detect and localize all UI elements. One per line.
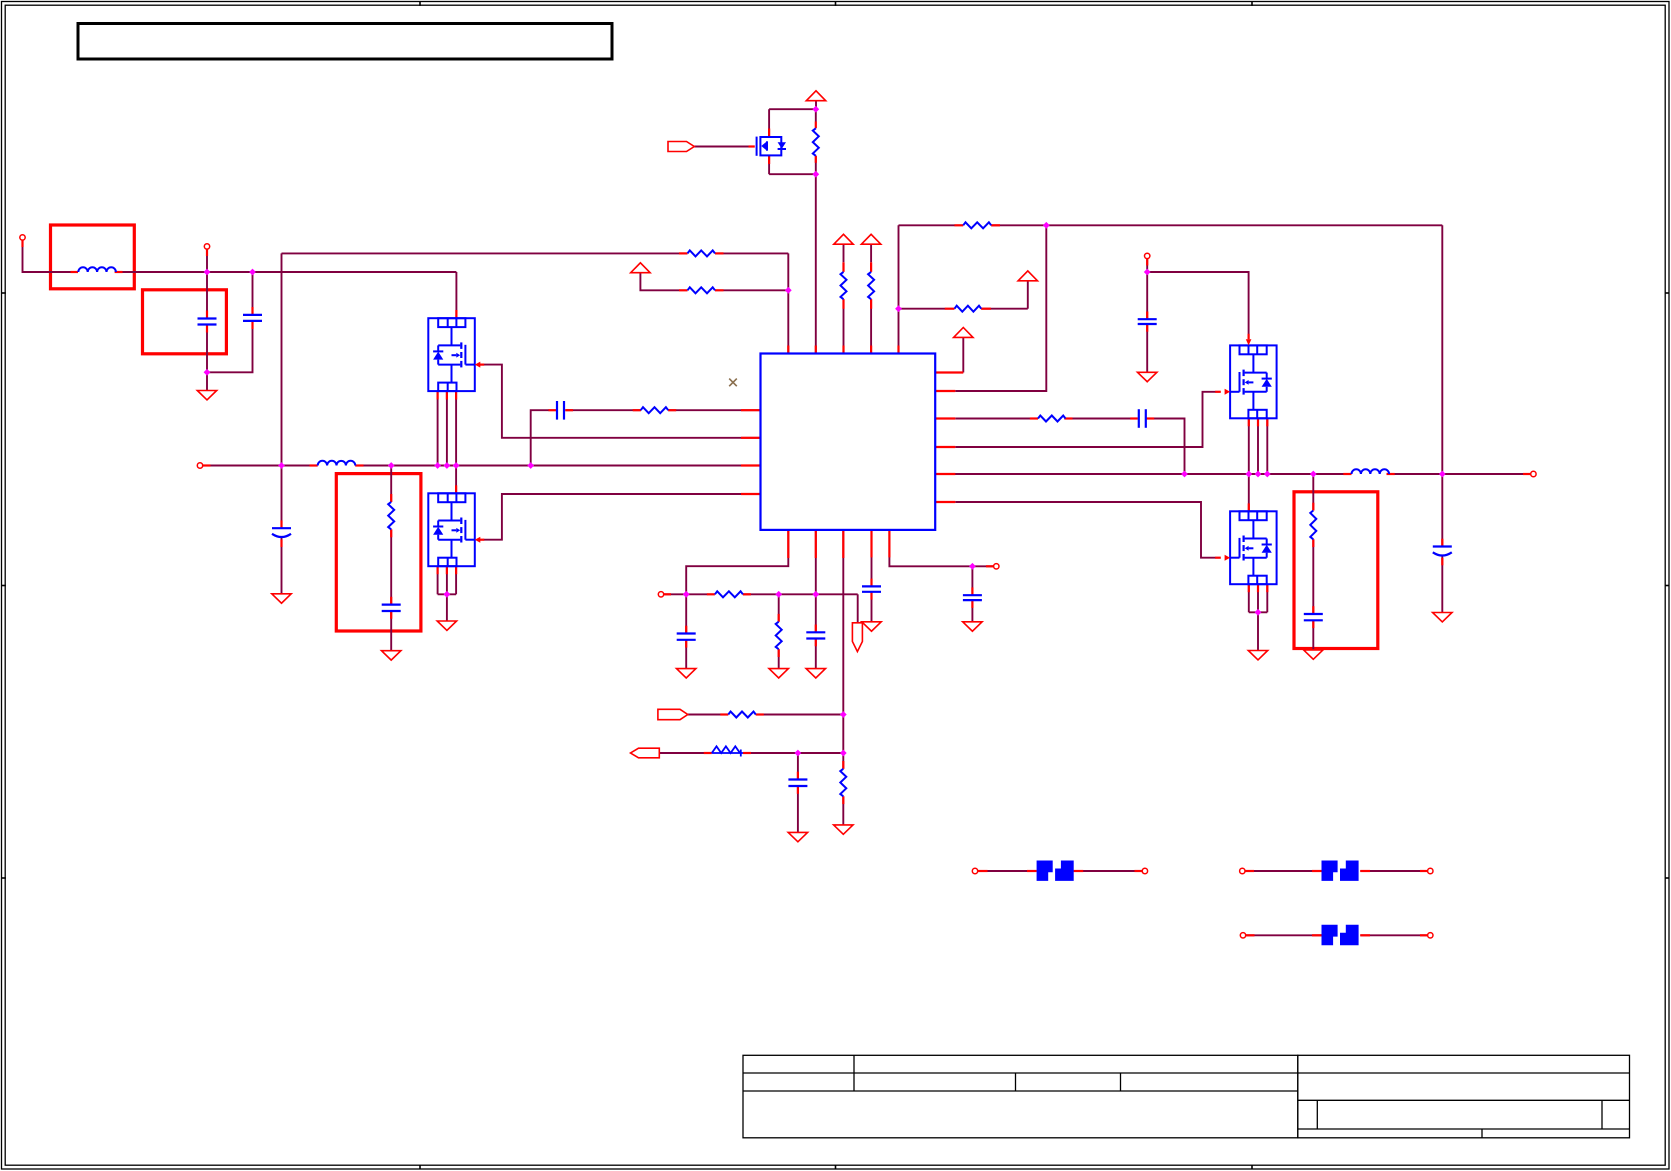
power arrow PW1 [806, 91, 825, 101]
wire M2 source pin a down [437, 566, 439, 594]
power arrow PW5 [1018, 271, 1037, 281]
wire resistor R11 to ground [778, 649, 780, 668]
pin stub C11 right [565, 409, 573, 411]
node junction feedback row b [840, 750, 847, 757]
inductor L2 [1352, 469, 1390, 474]
wire row2 between C11 and R6 [565, 409, 641, 411]
wire M2 source merge [438, 593, 457, 595]
wire port4 to M3 top [1147, 272, 1248, 339]
pin stub M1 gate lead [479, 364, 485, 366]
pin stub IC left row4 [741, 464, 761, 466]
wire row3 C12 to right bus [1147, 419, 1185, 475]
resistor R13 [728, 712, 756, 718]
IC U5 main controller [761, 354, 936, 530]
pin stub L1 right [115, 271, 123, 273]
pin stub bulk cap bottom [280, 540, 282, 548]
wire pull-up resistor R1 top [815, 109, 817, 121]
wire VIN rail to IC pin [787, 253, 789, 353]
wire fb row right of R14 [743, 752, 843, 754]
output port tag A2 [631, 748, 660, 758]
port P3 [197, 463, 202, 468]
resistor R15 in VIN rail [688, 250, 716, 256]
pin stub C2 bottom [251, 321, 253, 329]
pin stub C9 top [390, 597, 392, 605]
capacitor C14 polarized bulk right [1433, 547, 1452, 556]
wire gate port to Q1 gate [694, 146, 748, 148]
resistor R3 [868, 272, 874, 299]
inductor L3 [318, 461, 356, 466]
wire right output bus [935, 473, 1344, 475]
wire left output bus right of L3 [355, 465, 760, 467]
wire M4 source pin c down [1266, 584, 1268, 612]
capacitor C7 [806, 632, 825, 638]
ground symbols [197, 372, 1452, 842]
pin stub R4 left [955, 224, 964, 226]
node junction boot rail [1043, 222, 1050, 229]
pin stub M3 top arrow lead [1247, 334, 1249, 340]
port P7 [658, 592, 663, 597]
pin stub M2 top [455, 485, 457, 493]
pin stub M2 bottom c [455, 566, 457, 574]
resistor R8 [388, 502, 394, 530]
wire node to IC top pin 2 [815, 174, 817, 353]
pin stub R12 top [842, 761, 844, 769]
wire VIN rail down through left bus to bulk cap [281, 253, 283, 528]
pin stub C9 bottom [390, 611, 392, 619]
wire fuse F3 right lead [1360, 934, 1428, 936]
pin stub R9 bottom [1312, 539, 1314, 547]
pin stub C2 top [251, 307, 253, 315]
pin stub R8 top [390, 494, 392, 502]
wire M3 source pin b to bus [1257, 418, 1259, 474]
resistor R16 branch [688, 287, 716, 293]
capacitor C11 series dc-block [557, 401, 564, 420]
node junction sense row b [775, 591, 782, 598]
fuse F1 body [1037, 861, 1074, 881]
resistor R4 [963, 222, 991, 228]
fuse F3 body [1322, 925, 1359, 945]
wire sense node to cap C7 [815, 594, 817, 632]
pin stub L2 left [1343, 473, 1351, 475]
wire sense node to resistor R11 [778, 594, 780, 621]
pin stub R1 top [815, 122, 817, 129]
pin stub M2 gate lead [479, 539, 485, 541]
wire VIN rail right of R15 [715, 252, 788, 254]
pin stub M4 bottom b [1257, 584, 1259, 592]
capacitor C1 [198, 319, 217, 325]
wire rail drop to IC right pin 2 [955, 225, 1046, 391]
wire row3 between R7 and C12 [1066, 418, 1131, 420]
pin stub port2 [206, 249, 208, 256]
port F2 left [1240, 868, 1245, 873]
wire M3 source pin a to bus [1248, 418, 1250, 474]
pin stub M2 bottom a [437, 566, 439, 574]
node junction right bus e [1310, 471, 1317, 478]
wire power to resistor R2 [843, 244, 845, 262]
wire node to cap C8 [797, 753, 799, 780]
pin stub R13 right [756, 713, 764, 715]
pin stub M1 top [455, 310, 457, 318]
pin stub C4 bottom [870, 592, 872, 600]
power symbols [631, 91, 1038, 338]
wire bus to M4 top pin [1248, 474, 1250, 511]
pin stub C4 top [870, 579, 872, 587]
ground G6 [1248, 651, 1267, 660]
resistor R14 varistor style [712, 746, 743, 756]
pin stub R2 bottom [842, 299, 844, 309]
node junction right bus b [1245, 471, 1252, 478]
pin stub R5 right [981, 308, 991, 310]
port P6 [994, 564, 999, 569]
node A junction at C2 [249, 269, 256, 276]
wire sense row [664, 593, 708, 595]
wire R9 to snubber cap C10 [1312, 539, 1314, 614]
pin stub C10 top [1312, 606, 1314, 614]
pin stub M3 bottom a [1248, 418, 1250, 426]
pin stub R14 left [704, 752, 712, 754]
wire bus to snubber resistor R8 [390, 466, 392, 502]
node junction right bus f [1439, 471, 1446, 478]
node junction P-fet loop top [812, 106, 819, 113]
pin stub fuse F1 ports and body [977, 870, 987, 872]
power arrow PW3 [861, 234, 880, 244]
wire C1 bottom to ground [206, 325, 208, 391]
wire feedback out row with R14 [659, 752, 704, 754]
pin stub R2 top [842, 262, 844, 272]
wire sense row end to flag [857, 594, 859, 623]
wire port4 stem [1146, 259, 1148, 273]
capacitor C12 series dc-block [1139, 409, 1146, 428]
pin stub C10 bottom [1312, 620, 1314, 628]
pin stub bulk cap top [280, 520, 282, 528]
pin stub M3 gate lead [1215, 391, 1221, 393]
pin stub M1 bottom c [455, 391, 457, 399]
port F3 left [1240, 933, 1245, 938]
wire cap C7 to ground [815, 639, 817, 669]
pin stub port7 [664, 593, 672, 595]
wire sense row right of R10 [743, 593, 858, 595]
pin stub M3 bottom b [1257, 418, 1259, 426]
resistor R6 [641, 407, 669, 413]
wire port2 stem [206, 249, 208, 272]
capacitor C5 [963, 595, 982, 600]
wire M1 source pin b to bus [446, 391, 448, 465]
pin stub Q1 source bottom [768, 155, 770, 164]
wire bus rise to feedback row [531, 410, 549, 465]
pin stub R16 right [715, 289, 724, 291]
pin stub L3 left [310, 464, 318, 466]
wire bus to snubber resistor R9 [1312, 474, 1314, 511]
pin stub port5 [1523, 473, 1531, 475]
node junction left bus c [434, 462, 441, 469]
wire feedback row right with R7 C12 [955, 418, 1030, 420]
pin stub C7 top [815, 625, 817, 633]
pin stub IC left row5 [741, 493, 761, 495]
transistor Q2 power module top-left [428, 318, 475, 391]
pin stub IC right rows [935, 390, 955, 392]
transistor Q1 small P-FET [757, 137, 786, 156]
wire M1 source pin c to bus [455, 391, 457, 465]
ground G9 [677, 669, 696, 678]
pin stub right bulk cap bottom [1441, 558, 1443, 566]
pin stub IC right row1 full red [935, 371, 963, 373]
wire L1 right to node A [122, 271, 456, 273]
node junction left bus b [388, 462, 395, 469]
pin stub R1 bottom [815, 156, 817, 163]
wire cap C6 to ground [685, 640, 687, 669]
pin stub IC left row3 [741, 437, 761, 439]
empty title banner box top-left [78, 24, 612, 60]
port F2 right [1428, 868, 1433, 873]
pin stub R10 right [743, 593, 751, 595]
node junction right bus c [1255, 471, 1262, 478]
node junction P-fet loop bottom [812, 171, 819, 178]
node junction feedback row a [795, 750, 802, 757]
ground G15 [788, 832, 807, 841]
node A junction at port2 [204, 269, 211, 276]
pin stub Q1 gate [749, 145, 755, 147]
ground G1 [197, 391, 216, 400]
pin stub C11 left [549, 409, 557, 411]
pin stub C8 top [797, 772, 799, 780]
gate pin arrow Q5 [1225, 555, 1231, 561]
port P2 [204, 244, 209, 249]
ground G5 [1138, 372, 1157, 381]
wire cap C4 to ground [871, 592, 873, 622]
net flag pennant [852, 623, 862, 652]
wire node to cap C5 [971, 566, 973, 595]
input port tag A3 [668, 142, 694, 152]
fuse F2 body [1322, 861, 1359, 881]
port F1 left [972, 868, 977, 873]
pin stub R3 top [870, 262, 872, 272]
transistor Q5 power module bottom-right [1230, 511, 1277, 584]
red pin stubs [23, 122, 1531, 936]
capacitor C6 [677, 634, 696, 640]
pin stub port6 [986, 565, 994, 567]
ground G8 [1433, 613, 1452, 622]
pin stub port4 [1146, 259, 1148, 266]
port P5 [1531, 471, 1536, 476]
wire M4 source merge [1249, 611, 1268, 613]
node junction M4 source merge [1255, 609, 1262, 616]
wire fuse F1 right lead [1074, 870, 1143, 872]
wire M4 source pin b down [1257, 584, 1259, 612]
node junction enable row [840, 711, 847, 718]
wire bus to M2 top pin [455, 466, 457, 494]
node junction M2 source merge [444, 591, 451, 598]
pin stub C5 top [971, 587, 973, 595]
ground G14 [834, 825, 853, 834]
pin stub L2 right [1387, 473, 1395, 475]
pin stub M1 bottom a [437, 391, 439, 399]
wire resistor R12 to ground [842, 796, 844, 825]
pin stub R15 left [679, 252, 688, 254]
pin stub fuse F2 ports and body [1245, 870, 1254, 872]
capacitor C8 [788, 780, 807, 787]
capacitor C9 [382, 605, 401, 611]
wire C2 bottom to C1 bottom [207, 321, 253, 372]
port P4 [1145, 253, 1150, 258]
wire IC bottom pin 3 long drop [842, 530, 844, 769]
pin stub C5 bottom [971, 600, 973, 608]
pin stub C3 bottom [1146, 324, 1148, 332]
wire resistor R5 row [899, 308, 946, 310]
wire cap C5 to ground [971, 600, 973, 622]
port circles [20, 235, 1536, 938]
pin stub R11 top [778, 614, 780, 622]
wire M2 source pin c down [455, 566, 457, 594]
pin stub IC bottom pins [787, 530, 789, 558]
title block table bottom-right [743, 1055, 1630, 1138]
pin stub fuse F3 ports and body [1245, 934, 1254, 936]
resistor R5 [955, 306, 982, 312]
wire power arrow PW6 stem to branch row [640, 273, 679, 291]
port F3 right [1428, 933, 1433, 938]
pin stub R13 left [720, 713, 728, 715]
wire power flag stem [815, 101, 817, 110]
node junction left bus d [444, 462, 451, 469]
wire R5 right lead [981, 308, 1028, 310]
pin stub C8 bottom [797, 786, 799, 794]
transistor Q4 power module top-right [1230, 345, 1277, 418]
wire P-fet drain down [768, 155, 770, 174]
pin stub R16 left [679, 289, 688, 291]
pin stub C12 right [1147, 417, 1155, 419]
wire boot rail right drop to right bus [1441, 225, 1443, 546]
wire cap C3 to ground [1146, 324, 1148, 372]
wire IC right pin 1 to power arrow [962, 337, 964, 372]
port P1 [20, 235, 25, 240]
pin stub port3 [203, 464, 211, 466]
pin stub M2 bottom b [446, 566, 448, 574]
wire M4 source merge to ground [1257, 612, 1259, 650]
wire C9 to ground [390, 611, 392, 651]
node junction right bus a [1181, 471, 1188, 478]
wire node A to capacitor C2 [252, 272, 254, 315]
wire cap C8 to ground [797, 786, 799, 832]
pin stub C1 bottom [206, 325, 208, 333]
pin stub R12 bottom [842, 796, 844, 804]
node junction R5 row [895, 305, 902, 312]
pin stub R6 right [668, 409, 676, 411]
wire branch row R16 to VIN drop junction [724, 289, 789, 291]
pin stub M4 bottom a [1248, 584, 1250, 592]
pin stub R14 right [743, 752, 751, 754]
wire M3 source pin c to bus [1266, 418, 1268, 474]
wire IC bottom pin 5 to port6 [889, 530, 993, 566]
pin stub C6 bottom [685, 640, 687, 648]
gate pin arrow Q3 [475, 537, 481, 543]
wire M1 source pin a to bus [437, 391, 439, 465]
wire node A to capacitor C1 [206, 272, 208, 319]
highlight box around input capacitor [143, 290, 227, 354]
resistor R10 [715, 591, 743, 597]
power arrow PW2 [834, 234, 853, 244]
node junction sense row c [812, 591, 819, 598]
node junction left bus a [278, 462, 285, 469]
node junction at port4 [1144, 269, 1151, 276]
wire M2 source pin b down [446, 566, 448, 594]
node junction sense row a [683, 591, 690, 598]
node junction port6 row [969, 563, 976, 570]
wire resistor R3 to IC [870, 299, 872, 353]
pin stub R4 right [991, 224, 1000, 226]
wire M4 source pin a down [1248, 584, 1250, 612]
wire enable row with R13 [688, 714, 721, 716]
pin stub Q1 drain top [768, 129, 770, 138]
gate pin arrow Q2 [475, 362, 481, 368]
pin stub R10 left [707, 593, 715, 595]
pin stub IC top pins [787, 346, 789, 354]
capacitor C3 [1138, 319, 1157, 324]
power arrow PW6 [631, 263, 650, 273]
pin stub M3 bottom c [1266, 418, 1268, 426]
resistor R11 [776, 622, 782, 650]
resistor R7 [1038, 416, 1066, 422]
power arrow PW4 [954, 328, 973, 338]
wire IC bottom pin 4 to cap C4 [871, 530, 873, 587]
wire IC bottom pin 2 to sense row [815, 530, 817, 594]
top pin arrow Q4 [1246, 339, 1252, 345]
pin stub R5 left [945, 308, 955, 310]
wire R8 to snubber cap C9 [390, 529, 392, 604]
pin stub R15 right [715, 252, 724, 254]
wire enable row right of R13 [756, 714, 844, 716]
wire M4 gate to IC [955, 502, 1215, 558]
node junction VIN branch [785, 287, 792, 294]
pin stub R7 right [1064, 417, 1072, 419]
no-connect X mark [729, 379, 737, 387]
wire right bulk cap to ground [1441, 556, 1443, 612]
capacitor C10 [1304, 614, 1323, 620]
pin stub M4 bottom c [1266, 584, 1268, 592]
wire fuse F2 right lead [1360, 870, 1428, 872]
wire boot rail horizontal [899, 224, 956, 226]
inductor L1 [78, 267, 116, 272]
wire M3 gate to IC [955, 392, 1215, 447]
wire boot rail right of R4 [991, 224, 1442, 226]
highlight box around right snubber network [1294, 492, 1378, 649]
ground G2 [272, 594, 291, 603]
ground G12 [862, 622, 881, 631]
capacitor C2 [243, 315, 262, 321]
pin stub right bulk cap top [1441, 539, 1443, 547]
pin stub R3 bottom [870, 299, 872, 309]
wire P-fet loop bottom [769, 173, 816, 175]
pin stub R9 top [1312, 503, 1314, 511]
pin stub C3 top [1146, 312, 1148, 320]
wire right output bus right of L2 [1389, 473, 1531, 475]
ground G3 [382, 651, 401, 660]
node junction right bus d [1264, 471, 1271, 478]
pin stub R7 left [1030, 417, 1038, 419]
pin stub L3 right [355, 464, 363, 466]
pin stub M1 bottom b [446, 391, 448, 399]
pin stub C7 bottom [815, 639, 817, 647]
pin stub IC left row2 [741, 409, 761, 411]
wire boot rail down to IC [898, 225, 900, 353]
wire C10 to ground [1312, 620, 1314, 650]
input port tag A1 [658, 709, 688, 719]
wire port4 node to cap C3 [1146, 272, 1148, 319]
resistor R9 [1310, 511, 1316, 540]
wire power to resistor R3 [870, 244, 872, 262]
pin stub R6 left [633, 409, 641, 411]
wire fuse F1 left lead [977, 870, 1036, 872]
resistor R2 [841, 272, 847, 299]
ground G13 [963, 622, 982, 631]
